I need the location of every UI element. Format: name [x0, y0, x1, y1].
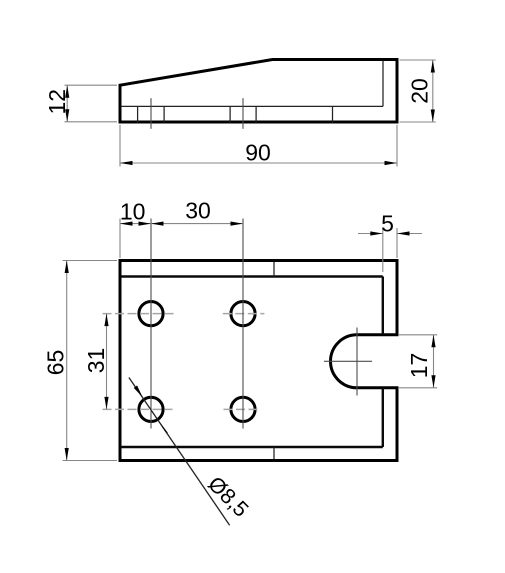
inner wall line bottom [121, 446, 383, 448]
hole B2 (bottom-right) [231, 397, 255, 421]
svg-text:20: 20 [406, 78, 432, 104]
dim 20 arrows [431, 60, 435, 73]
slot vertical centerline [356, 328, 358, 396]
plate left edge [119, 259, 122, 462]
centerline row1 right hole [223, 313, 265, 315]
hole col1 vertical centerline / extension [150, 219, 152, 429]
plate right edge lower segment [396, 388, 399, 462]
svg-text:65: 65 [42, 350, 68, 376]
dim 10/30 left extension line [119, 219, 121, 259]
dim 12 extension lines [65, 84, 118, 86]
dim 10 arrows [120, 222, 133, 226]
svg-text:12: 12 [44, 89, 70, 115]
hidden hole col2 left edge [229, 106, 231, 122]
side view inner floor line [121, 105, 383, 107]
svg-text:30: 30 [185, 197, 211, 223]
hidden hole col2 right edge [255, 106, 257, 122]
slope break line bottom [273, 447, 275, 459]
dim 31 line [106, 314, 108, 410]
side view inner wall vertical [382, 61, 384, 107]
svg-text:90: 90 [245, 140, 271, 166]
leader arrow upper (points into circle) [134, 386, 143, 398]
plate right edge upper segment [396, 259, 399, 335]
dim 65 extension lines [63, 260, 118, 262]
dim 5 line left part [358, 233, 383, 235]
svg-text:10: 10 [120, 199, 146, 225]
hidden slot tangent line [332, 106, 334, 122]
dim 90 extension lines [119, 125, 121, 167]
slot top line [357, 333, 399, 336]
dim 5 line right part [397, 233, 422, 235]
dim 17 line [433, 335, 435, 388]
svg-text:17: 17 [406, 353, 432, 379]
hidden hole col1 left edge [137, 106, 139, 122]
svg-text:31: 31 [83, 348, 109, 374]
inner wall line right lower [382, 388, 384, 447]
hole B1 (bottom-left) [139, 397, 163, 421]
hole col1 centerline (side view) [150, 98, 152, 129]
hole A1 (top-left) [139, 302, 163, 326]
dim 20 line [432, 60, 434, 122]
dim 90 arrows [120, 161, 133, 165]
dim 5 arrows (outside) [370, 231, 383, 235]
plate bottom edge [119, 459, 399, 462]
dim 17 extension lines [399, 334, 437, 336]
dim 90 line [120, 162, 397, 164]
slot bottom line [357, 386, 399, 389]
plate top edge [119, 259, 399, 262]
dim 12 arrows [65, 85, 69, 98]
dim 12 line [66, 85, 68, 122]
hole col2 vertical centerline / extension [242, 219, 244, 429]
dim 31 arrows [104, 314, 108, 327]
hole col2 centerline (side view) [242, 98, 244, 129]
slot horizontal centerline [324, 360, 372, 362]
hidden hole col1 right edge [163, 106, 165, 122]
centerline row1 left hole [103, 313, 174, 315]
leader line for hole diameter [129, 378, 230, 526]
dim 65 line [66, 261, 68, 461]
slot semicircle arc [331, 335, 357, 388]
leader arrow lower (points into circle) [160, 422, 169, 434]
inner wall line right upper [382, 277, 384, 335]
dim 65 arrows [65, 261, 69, 274]
slope break line top [273, 262, 275, 277]
dim 30 arrows [151, 222, 164, 226]
dim 17 arrows [431, 335, 435, 348]
centerline row2 right hole [224, 408, 262, 410]
svg-text:5: 5 [381, 211, 394, 237]
dim 10/30 line [120, 223, 243, 225]
dim 5 extension lines [382, 228, 384, 272]
inner wall line top [121, 275, 383, 277]
hole A2 (top-right) [231, 302, 255, 326]
side view outline [120, 60, 397, 123]
centerline row2 left hole [103, 408, 173, 410]
dim 20 extension lines [400, 59, 436, 61]
